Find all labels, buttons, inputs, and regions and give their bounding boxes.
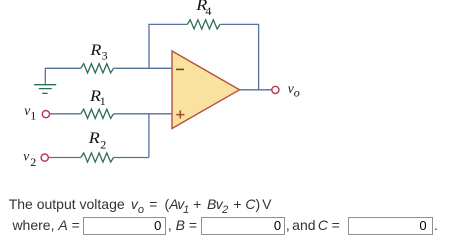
svg-text:v: v (24, 103, 30, 118)
svg-text:1: 1 (30, 108, 36, 122)
svg-text:2: 2 (30, 155, 36, 169)
svg-text:3: 3 (102, 48, 108, 62)
svg-text:2: 2 (100, 138, 106, 152)
svg-text:v: v (23, 149, 29, 164)
svg-text:o: o (294, 86, 300, 100)
svg-text:1: 1 (100, 94, 106, 108)
svg-text:R: R (89, 42, 101, 59)
svg-text:4: 4 (205, 4, 211, 18)
svg-text:R: R (88, 130, 100, 147)
